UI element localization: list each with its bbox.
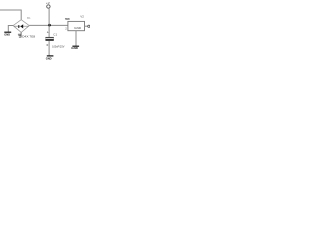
ground: [72, 45, 79, 47]
wire: [48, 8, 50, 25]
svg-text:C1: C1: [53, 33, 57, 37]
svg-text:100uF/25V: 100uF/25V: [52, 44, 64, 48]
wire: [29, 24, 68, 26]
wire: [8, 26, 13, 32]
svg-text:GND: GND: [46, 57, 53, 61]
output terminal: [88, 25, 90, 27]
ground: [4, 31, 11, 33]
ground: [47, 55, 54, 57]
wire: [75, 31, 77, 46]
chassis ground under bridge: [20, 32, 22, 37]
wire: [48, 25, 50, 37]
svg-text:V2: V2: [80, 15, 84, 19]
wire: [0, 10, 21, 20]
wire: [14, 25, 29, 27]
svg-text:GND: GND: [74, 26, 81, 30]
svg-text:+: +: [47, 30, 49, 34]
svg-text:D4X 7E8: D4X 7E8: [22, 35, 35, 39]
bridge rectifier B1: [13, 20, 29, 33]
svg-text:GND: GND: [71, 46, 78, 50]
diode inside bridge: [18, 25, 19, 28]
capacitor C1: [46, 37, 54, 40]
svg-text:7805: 7805: [65, 17, 70, 21]
regulator U1 box: [68, 21, 85, 30]
wire: [48, 41, 50, 56]
node junction: [48, 24, 51, 27]
svg-text:B1: B1: [27, 16, 31, 20]
wire: [85, 25, 88, 27]
minus polarity mark: [47, 44, 49, 46]
svg-text:GND: GND: [4, 32, 11, 36]
